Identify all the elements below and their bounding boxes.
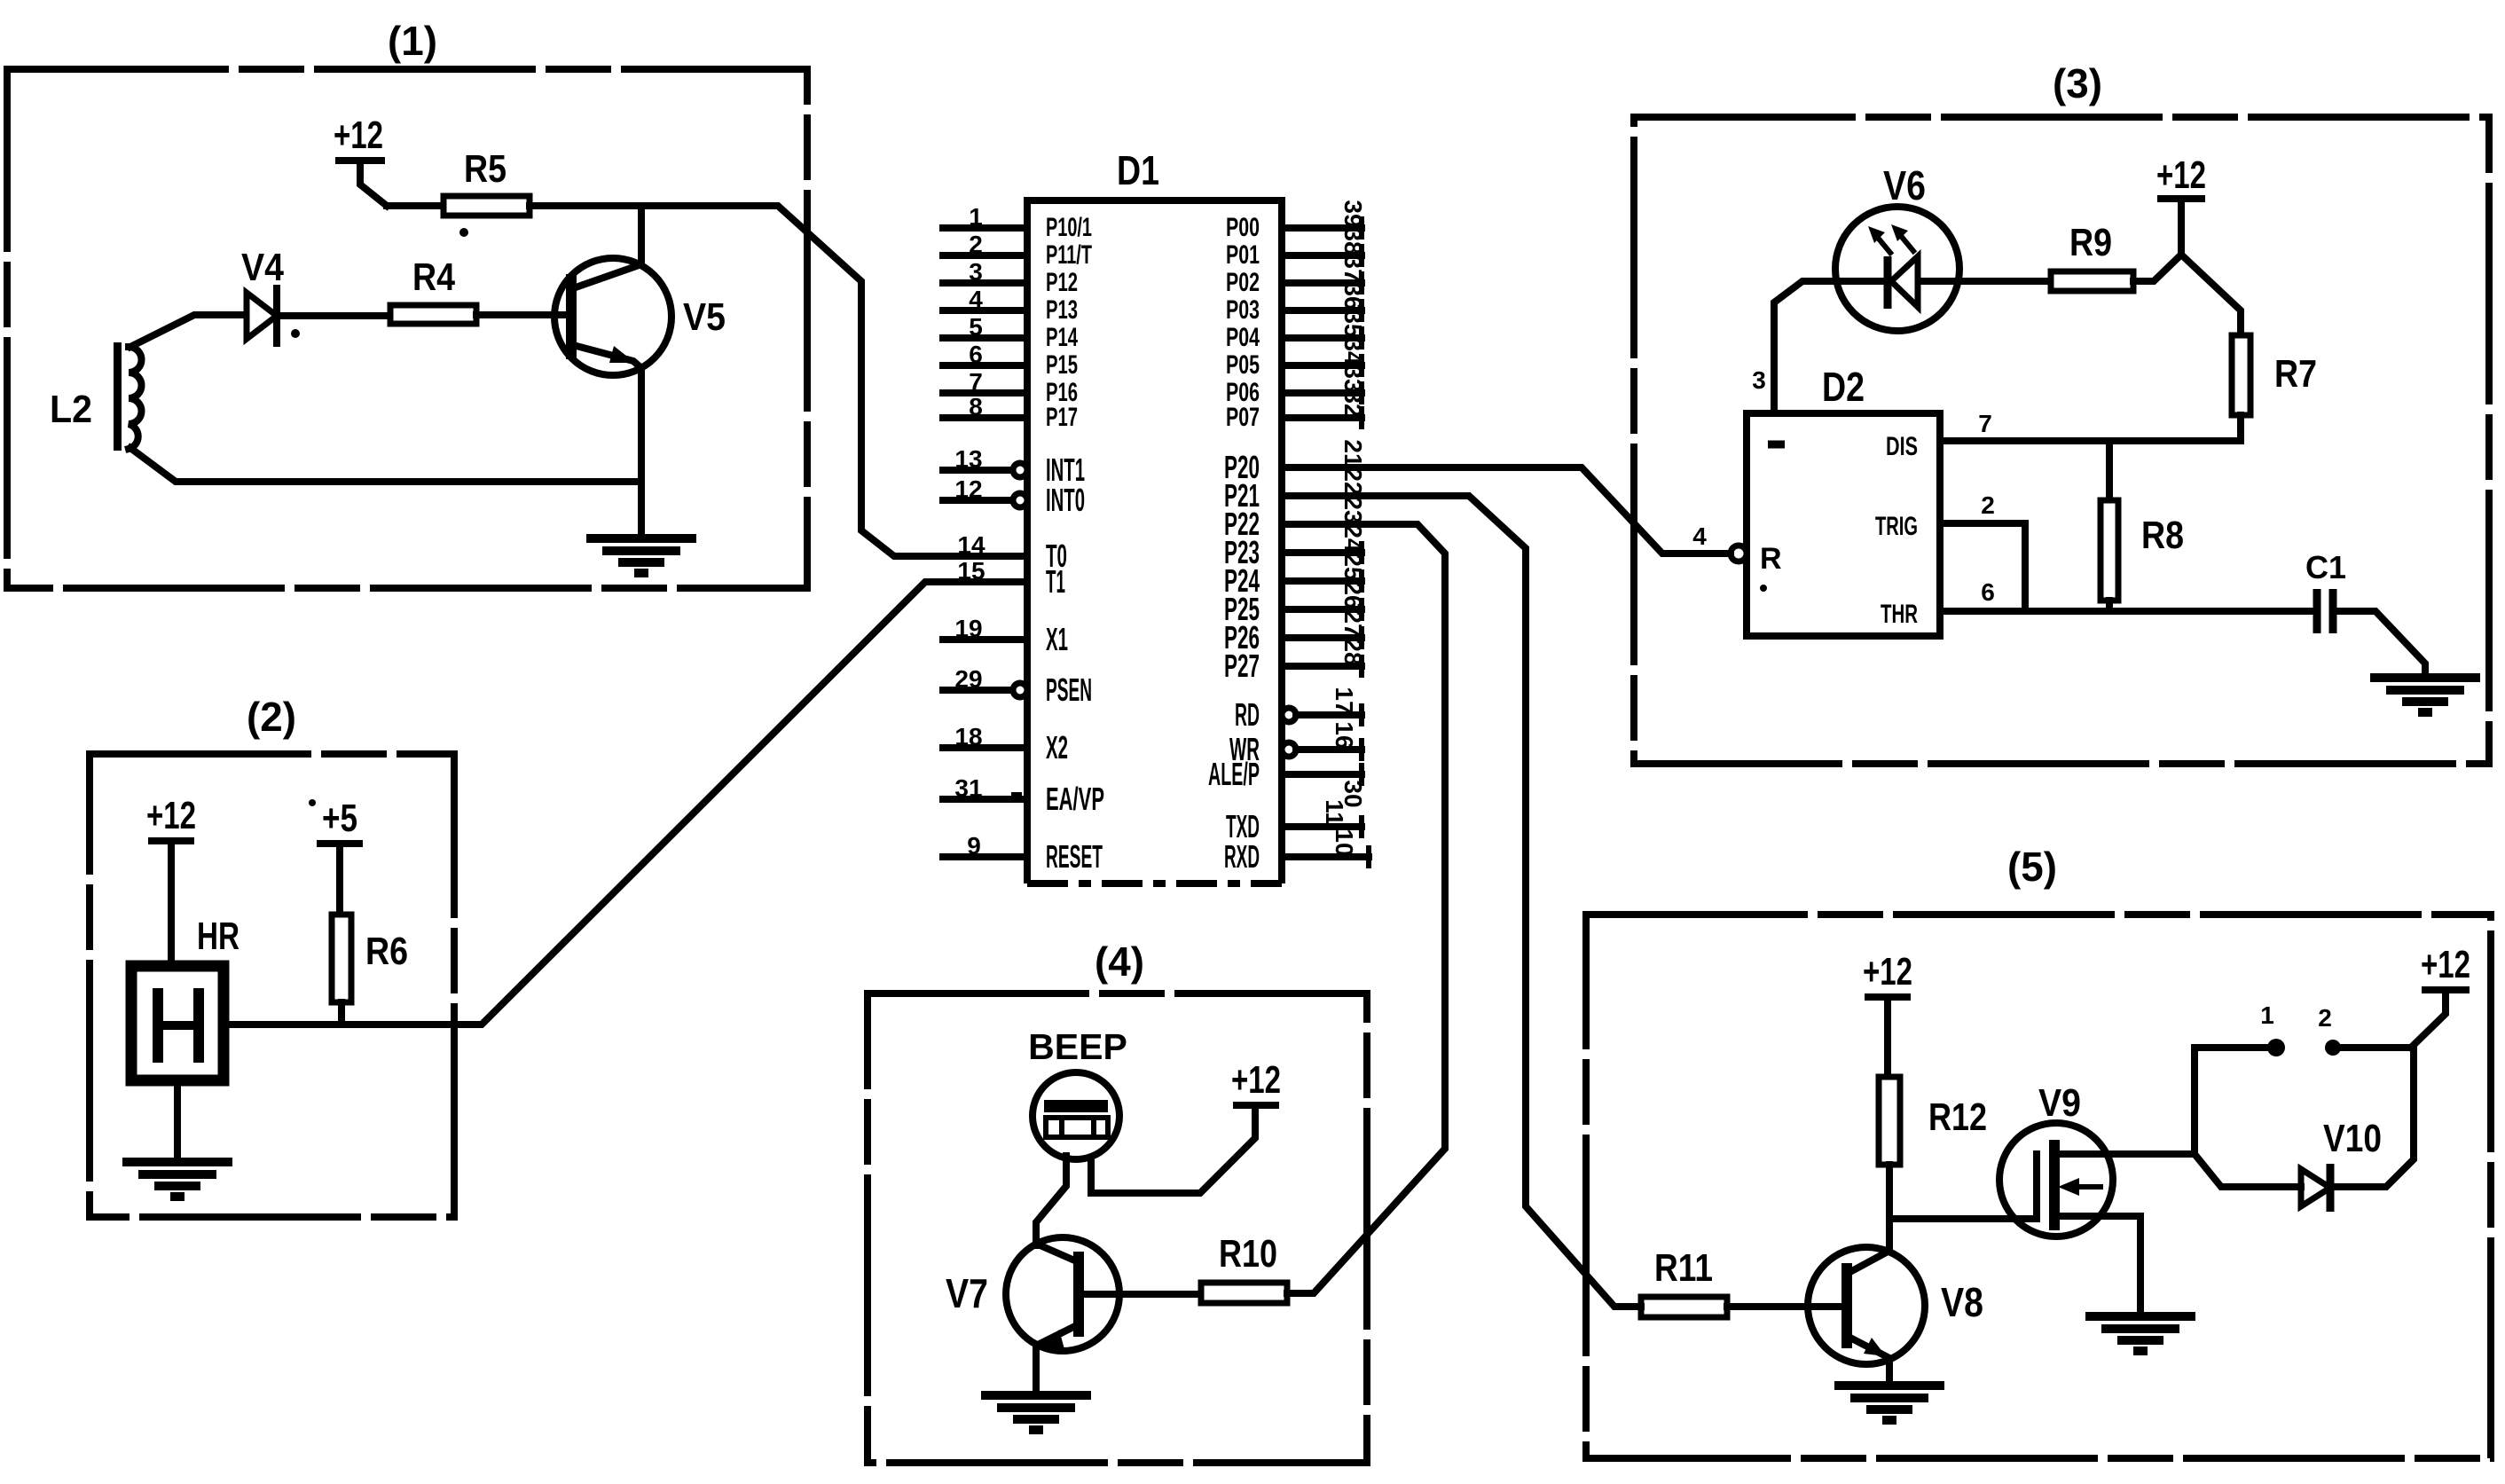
svg-text:P00: P00 <box>1226 213 1260 242</box>
D1 pin 36 P03 <box>1226 282 1367 325</box>
power +12 block5 right <box>2411 943 2470 1048</box>
svg-text:2: 2 <box>2318 1004 2332 1032</box>
wire L2 top to V4 <box>130 315 247 347</box>
svg-text:13: 13 <box>954 445 982 473</box>
ground V8 <box>1834 1386 1944 1420</box>
wire HR to D1 T1 <box>224 582 1027 1025</box>
power +12 block1 <box>334 114 387 206</box>
diode V10 <box>2301 1117 2382 1212</box>
svg-text:15: 15 <box>957 557 985 585</box>
svg-text:7: 7 <box>1978 410 1992 437</box>
svg-text:3: 3 <box>1752 366 1766 394</box>
wire D2 THR pin6 <box>1940 578 2315 611</box>
wire R4 to V5 base <box>476 311 569 318</box>
svg-text:V6: V6 <box>1883 162 1926 208</box>
svg-text:7: 7 <box>969 368 983 396</box>
D1 pin 3 P12 <box>943 258 1078 297</box>
wire beeper to V7 collector <box>1036 1156 1066 1245</box>
D1 pin 35 P04 <box>1226 310 1367 352</box>
D1 pin 1 P10/1 <box>943 203 1092 242</box>
svg-text:4: 4 <box>969 286 983 313</box>
svg-text:14: 14 <box>957 531 986 559</box>
svg-text:6: 6 <box>969 341 983 368</box>
svg-text:D1: D1 <box>1117 147 1159 193</box>
block (4) frame <box>868 993 1367 1463</box>
ground V9 <box>2085 1316 2195 1351</box>
inductor L2 <box>50 342 142 451</box>
svg-text:R10: R10 <box>1219 1232 1277 1276</box>
label (4) <box>1095 938 1144 985</box>
svg-text:ALE/P: ALE/P <box>1208 756 1260 792</box>
svg-text:P17: P17 <box>1046 403 1078 432</box>
heater HR <box>131 915 240 1080</box>
svg-text:P10/1: P10/1 <box>1046 213 1092 242</box>
D1 pin 5 P14 <box>943 313 1078 352</box>
svg-text:R9: R9 <box>2069 221 2112 264</box>
D1 pin 10 RXD <box>1224 828 1369 875</box>
svg-text:+12: +12 <box>146 794 196 837</box>
D1 pin 13 INT1 <box>943 445 1085 488</box>
svg-text:1: 1 <box>969 203 983 231</box>
wire +12 fork to R7 <box>2181 255 2241 335</box>
transistor V5 <box>554 206 726 537</box>
svg-text:5: 5 <box>969 313 983 341</box>
svg-text:23: 23 <box>1339 496 1367 523</box>
svg-text:22: 22 <box>1339 467 1367 495</box>
D1 pin 8 P17 <box>943 393 1078 432</box>
svg-text:+12: +12 <box>2421 943 2470 986</box>
svg-text:R6: R6 <box>365 930 408 973</box>
block (5) frame <box>1586 915 2491 1458</box>
svg-text:(2): (2) <box>247 694 296 740</box>
svg-text:THR: THR <box>1881 600 1918 629</box>
svg-text:TRIG: TRIG <box>1875 512 1918 541</box>
svg-text:P04: P04 <box>1226 323 1260 352</box>
svg-text:21: 21 <box>1339 439 1367 467</box>
D1 pin 12 INT0 <box>943 475 1085 518</box>
capacitor C1 <box>2305 549 2346 633</box>
D1 pin 9 RESET <box>943 832 1103 875</box>
svg-text:R7: R7 <box>2274 352 2317 396</box>
svg-text:28: 28 <box>1339 638 1367 665</box>
svg-text:(4): (4) <box>1095 938 1144 985</box>
svg-text:T1: T1 <box>1046 563 1065 600</box>
LED V6 <box>1835 162 1959 331</box>
wire R12 to V8 collector <box>1886 1165 1893 1249</box>
resistor R4 <box>390 255 476 324</box>
wire V8 collector node to V9 gate <box>1889 1215 2037 1222</box>
svg-text:26: 26 <box>1339 581 1367 609</box>
beeper BEEP <box>1028 1026 1127 1159</box>
svg-text:18: 18 <box>954 723 982 750</box>
svg-text:R12: R12 <box>1928 1095 1987 1139</box>
D1 pin 30 ALE/P <box>1208 756 1367 808</box>
wire D1 P21 to R11 <box>1282 496 1641 1307</box>
contact point 1 <box>2260 1001 2285 1056</box>
svg-text:INT0: INT0 <box>1046 482 1085 518</box>
wire R7 to D2 DIS pin7 <box>1940 410 2241 441</box>
svg-text:+12: +12 <box>2156 153 2206 197</box>
svg-text:P03: P03 <box>1226 295 1260 325</box>
svg-text:V4: V4 <box>241 246 284 289</box>
D1 pin 14 T0 <box>957 531 1067 574</box>
svg-text:11: 11 <box>1321 799 1348 826</box>
D1 pin 7 P16 <box>943 368 1078 407</box>
microcontroller U D1 body <box>1027 147 1282 883</box>
svg-text:V7: V7 <box>946 1270 988 1316</box>
ground V7 <box>981 1395 1091 1430</box>
svg-text:HR: HR <box>197 915 240 958</box>
D1 pin 11 TXD <box>1226 799 1362 844</box>
svg-text:P15: P15 <box>1046 350 1078 380</box>
svg-text:P11/T: P11/T <box>1046 240 1092 270</box>
svg-text:V5: V5 <box>683 295 726 339</box>
transistor V7 <box>946 1237 1201 1394</box>
svg-text:V10: V10 <box>2323 1117 2382 1160</box>
svg-text:38: 38 <box>1339 227 1367 255</box>
resistor R10 <box>1201 1232 1287 1303</box>
svg-text:(3): (3) <box>2053 60 2102 106</box>
transistor V8 <box>1727 1247 1983 1384</box>
relay contact lead left <box>2195 1048 2267 1154</box>
D1 pin 16 WR <box>1229 721 1362 767</box>
D1 pin 15 T1 <box>957 557 1065 600</box>
power +12 block4 <box>1231 1058 1281 1105</box>
svg-text:35: 35 <box>1339 310 1367 337</box>
D1 pin 22 P21 <box>1224 467 1367 514</box>
power +5 block2 <box>320 797 359 915</box>
wire L2 bottom to V5 emitter <box>130 448 641 482</box>
svg-text:3: 3 <box>969 258 983 286</box>
D1 pin 24 P23 <box>1224 524 1367 570</box>
svg-text:X2: X2 <box>1046 729 1068 766</box>
svg-text:RXD: RXD <box>1224 838 1260 875</box>
svg-text:RESET: RESET <box>1046 838 1103 875</box>
D1 pin 17 RD <box>1235 687 1362 733</box>
noise dash near pin 31 <box>1011 792 1022 797</box>
svg-text:+12: +12 <box>1231 1058 1281 1102</box>
label (1) <box>388 18 437 64</box>
svg-text:V9: V9 <box>2038 1081 2081 1125</box>
svg-text:+12: +12 <box>1863 950 1912 993</box>
D1 pin 34 P05 <box>1226 337 1367 380</box>
svg-text:17: 17 <box>1331 687 1358 714</box>
D1 pin 29 PSEN <box>943 665 1092 708</box>
svg-text:24: 24 <box>1339 524 1367 553</box>
svg-text:39: 39 <box>1339 200 1367 227</box>
svg-text:R: R <box>1760 542 1782 576</box>
noise dot near R5 <box>459 228 468 237</box>
resistor R9 <box>2051 221 2133 291</box>
svg-text:P27: P27 <box>1224 648 1260 684</box>
svg-text:6: 6 <box>1981 578 1995 606</box>
relay contact lead right <box>2342 1044 2411 1051</box>
D1 pin 25 P24 <box>1224 553 1367 599</box>
svg-text:EA/VP: EA/VP <box>1046 781 1104 817</box>
svg-text:V8: V8 <box>1941 1279 1983 1325</box>
svg-text:(5): (5) <box>2007 844 2057 890</box>
svg-text:27: 27 <box>1339 609 1367 637</box>
svg-text:X1: X1 <box>1046 621 1068 657</box>
wire R6 bottom to node <box>338 1002 345 1025</box>
svg-text:1: 1 <box>2260 1001 2274 1029</box>
svg-text:P07: P07 <box>1226 403 1260 432</box>
svg-text:P14: P14 <box>1046 323 1078 352</box>
svg-text:16: 16 <box>1331 721 1358 749</box>
svg-text:25: 25 <box>1339 553 1367 580</box>
ground C1 <box>2370 678 2480 712</box>
wire C1 to ground <box>2333 611 2425 676</box>
D1 pin 19 X1 <box>943 615 1068 657</box>
wire diode anode <box>2195 1154 2301 1187</box>
block (1) frame <box>7 69 807 588</box>
D1 pin 31 EA/VP <box>943 774 1104 817</box>
svg-text:19: 19 <box>954 615 982 642</box>
svg-text:(1): (1) <box>388 18 437 64</box>
svg-text:D2: D2 <box>1822 364 1865 410</box>
noise dot near +5 <box>309 799 316 806</box>
svg-text:31: 31 <box>954 774 982 802</box>
wire contact loop right side <box>2336 1050 2414 1187</box>
svg-text:L2: L2 <box>50 388 92 431</box>
D1 pin 37 P02 <box>1226 255 1367 297</box>
svg-text:10: 10 <box>1331 828 1358 856</box>
svg-text:32: 32 <box>1339 389 1367 417</box>
contact point 2 <box>2318 1004 2341 1056</box>
svg-text:R4: R4 <box>412 255 455 299</box>
svg-text:RD: RD <box>1235 696 1260 733</box>
label (5) <box>2007 844 2057 890</box>
wire HR bottom <box>174 1080 181 1160</box>
MOSFET V9 <box>1999 1081 2195 1315</box>
timer D2 <box>1747 364 1940 636</box>
svg-text:33: 33 <box>1339 365 1367 392</box>
svg-text:37: 37 <box>1339 255 1367 282</box>
svg-text:P02: P02 <box>1226 268 1260 297</box>
svg-text:+12: +12 <box>334 114 383 157</box>
svg-text:2: 2 <box>969 231 983 258</box>
resistor R12 <box>1879 1077 1987 1165</box>
svg-text:R8: R8 <box>2141 514 2184 557</box>
D1 pin 26 P25 <box>1224 581 1367 627</box>
svg-text:P05: P05 <box>1226 350 1260 380</box>
D1 pin 23 P22 <box>1224 496 1367 542</box>
D1 pin 33 P06 <box>1226 365 1367 407</box>
wire +12 to R5 <box>387 202 444 209</box>
svg-text:36: 36 <box>1339 282 1367 310</box>
D1 pin 18 X2 <box>943 723 1068 766</box>
ground V5 <box>586 538 696 573</box>
resistor R6 <box>332 915 408 1002</box>
resistor R8 <box>2101 441 2184 611</box>
D1 pin 2 P11/T <box>943 231 1092 270</box>
power +12 block5 left <box>1863 950 1912 1077</box>
svg-text:PSEN: PSEN <box>1046 671 1092 708</box>
wire D1 P20 to D2 pin4 <box>1282 467 1731 554</box>
block (2) frame <box>90 754 454 1217</box>
D2 reset bubble pin4 <box>1692 522 1747 561</box>
svg-text:P12: P12 <box>1046 268 1078 297</box>
D1 pin 38 P01 <box>1226 227 1367 270</box>
wire V4 to R4 <box>277 312 390 319</box>
resistor R5 <box>444 147 530 216</box>
diode V4 <box>241 246 284 343</box>
label (2) <box>247 694 296 740</box>
wire R5 to D1 T0 <box>530 206 1027 556</box>
svg-text:P01: P01 <box>1226 240 1260 270</box>
D1 pin 4 P13 <box>943 286 1078 325</box>
svg-text:DIS: DIS <box>1886 432 1918 461</box>
svg-text:BEEP: BEEP <box>1028 1026 1127 1067</box>
power +12 block3 <box>2133 153 2206 281</box>
svg-text:9: 9 <box>967 832 981 860</box>
svg-text:R5: R5 <box>464 147 506 191</box>
wire V6 to D2 pin3 <box>1752 281 1835 413</box>
resistor R7 <box>2232 335 2317 415</box>
svg-text:29: 29 <box>954 665 982 693</box>
svg-text:34: 34 <box>1339 337 1367 365</box>
wire D1 P22 to R10 <box>1282 524 1445 1293</box>
svg-text:R11: R11 <box>1654 1246 1713 1290</box>
D1 pin 39 P00 <box>1226 200 1367 242</box>
ground HR <box>122 1162 232 1197</box>
svg-text:C1: C1 <box>2305 549 2346 585</box>
D1 pin 32 P07 <box>1226 389 1367 432</box>
D1 pin 27 P26 <box>1224 609 1367 656</box>
D1 pin 21 P20 <box>1224 439 1367 485</box>
noise dot near V4 <box>291 329 300 338</box>
D1 pin 6 P15 <box>943 341 1078 380</box>
block (3) frame <box>1634 117 2489 764</box>
label (3) <box>2053 60 2102 106</box>
svg-text:2: 2 <box>1981 491 1995 519</box>
power +12 block2 <box>146 794 196 966</box>
D1 pin 28 P27 <box>1224 638 1367 684</box>
svg-text:12: 12 <box>954 475 982 503</box>
svg-text:+5: +5 <box>322 797 357 840</box>
svg-text:8: 8 <box>969 393 983 420</box>
svg-text:P13: P13 <box>1046 295 1078 325</box>
svg-text:4: 4 <box>1692 522 1707 550</box>
wire D2 TRIG pin2 <box>1940 491 2025 611</box>
wire V6 to R9 <box>1959 278 2051 285</box>
wire beeper to +12 <box>1091 1105 1255 1193</box>
resistor R11 <box>1641 1246 1727 1317</box>
